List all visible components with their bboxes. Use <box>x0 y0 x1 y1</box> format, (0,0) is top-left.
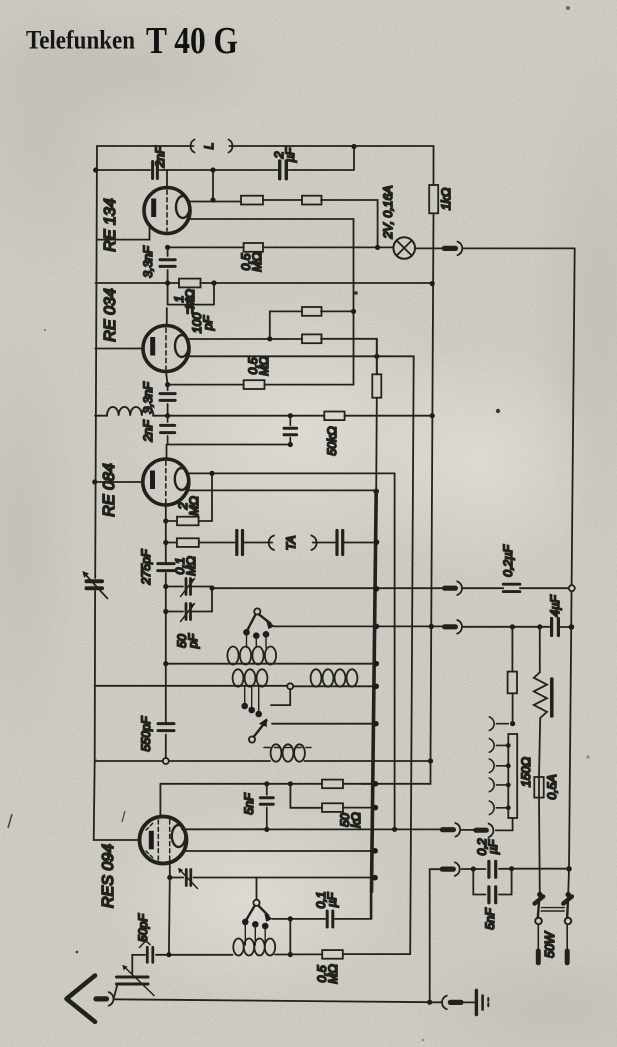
node bus y589 <box>374 586 380 592</box>
resistor vertical on bus <box>372 374 381 397</box>
node y586 <box>163 584 168 589</box>
node rail y170 <box>93 167 98 172</box>
wire riser x290 <box>289 919 291 955</box>
node y247 x377 <box>375 245 380 250</box>
grid leak chain RE134 <box>166 247 169 325</box>
capacitor 100pF <box>188 297 193 314</box>
resistor anode RE034 lower <box>302 334 322 343</box>
switch link <box>541 908 564 911</box>
tap 1 <box>489 739 508 753</box>
wire zigzag to fuse <box>539 718 540 777</box>
svg-text:pF: pF <box>186 632 200 649</box>
node bus y664 <box>374 661 380 667</box>
capacitor 3,3nF <box>160 260 175 267</box>
node y611 <box>163 609 168 614</box>
wire line y869 <box>430 868 569 871</box>
svg-text:RE 084: RE 084 <box>101 463 118 516</box>
svg-text:RES 094: RES 094 <box>100 844 117 908</box>
trim mark 50pF <box>140 938 151 948</box>
wire line y761 <box>95 760 430 762</box>
inductor coil 3 <box>311 669 322 686</box>
svg-text:50W: 50W <box>543 931 557 958</box>
tap 2 <box>489 759 508 773</box>
svg-text:µF: µF <box>486 838 500 854</box>
svg-text:RE 034: RE 034 <box>102 288 119 341</box>
antenna socket arc <box>109 992 114 1006</box>
node tap circle y686 <box>287 683 293 689</box>
band switch 3 <box>242 878 273 946</box>
capacitor 5nF mains <box>489 887 496 903</box>
node y869 x512 <box>509 866 514 871</box>
node y829 x393 <box>392 827 397 832</box>
wire switch arm line y627 <box>274 625 571 628</box>
connector arc TA right <box>311 536 316 551</box>
wire RES094 anode line y829 <box>182 828 443 830</box>
node y416 x432 <box>430 413 435 418</box>
trimmer capacitor upper <box>166 586 212 588</box>
resistor 0,1 MOhm <box>177 538 199 547</box>
lamp 2V 0,16A <box>393 237 415 259</box>
svg-text:Telefunken: Telefunken <box>26 26 135 55</box>
svg-text:MΩ: MΩ <box>250 252 264 272</box>
coupling capacitor x290 <box>284 416 297 445</box>
wire line y686 <box>95 685 377 688</box>
node bus y724 <box>373 721 379 727</box>
wire 0,1MOhm TA row <box>166 542 377 544</box>
wire RE084 grid riser <box>166 445 168 460</box>
svg-text:2nF: 2nF <box>153 145 167 169</box>
node rail circle y588 <box>569 585 575 591</box>
node bus y686 <box>373 684 379 690</box>
svg-text:275pF: 275pF <box>139 548 153 585</box>
capacitor 50pF antenna <box>147 947 153 962</box>
node rail y869 <box>566 866 572 872</box>
terminal plug y248 <box>444 246 455 251</box>
wire anode tap vertical <box>212 170 214 200</box>
capacitor TA right <box>337 531 343 555</box>
svg-text:1kΩ: 1kΩ <box>439 188 453 210</box>
resistor 0,5 MOhm (RE034 cathode) <box>244 380 265 389</box>
capacitor 2nF second (RE084 grid) <box>161 416 175 445</box>
svg-text:5nF: 5nF <box>242 792 256 815</box>
wire anode line y200 <box>190 200 378 247</box>
terminal plug y588 <box>445 586 456 591</box>
svg-text:T 40 G: T 40 G <box>146 20 238 62</box>
wire trimmer link vertical <box>211 587 213 612</box>
node y954 x290 <box>288 952 293 957</box>
plug speaker second <box>476 828 486 833</box>
wire 100pF branch <box>168 283 214 305</box>
mains switch pole B <box>563 892 572 963</box>
terminal socket arc y248 <box>458 242 463 256</box>
wire RE084 bottom lead <box>165 505 167 521</box>
resistor 2 MOhm <box>177 517 199 526</box>
node y473 x212 <box>209 471 214 476</box>
node bus y491 <box>373 489 379 495</box>
node y521 <box>163 518 168 523</box>
wire vertical 1k/lamp column <box>362 146 434 784</box>
trimmer capacitor lower 50pF <box>166 611 212 613</box>
earth socket arc <box>442 996 447 1010</box>
svg-text:50kΩ: 50kΩ <box>325 426 339 455</box>
capacitor 2uF (output coupling) <box>280 161 287 179</box>
antenna plug <box>96 996 107 1001</box>
node bus y627 <box>374 624 380 630</box>
svg-text:0,2µF: 0,2µF <box>501 544 515 577</box>
node y955 x169 <box>166 952 171 957</box>
resistor anode RE034 upper <box>302 307 322 316</box>
wire top line left <box>97 145 194 147</box>
wire vertical grid column RE084 <box>165 521 167 758</box>
ground rail left <box>94 146 140 840</box>
node bus TA <box>374 539 380 545</box>
node y664 <box>163 661 168 666</box>
node rail RE084 <box>92 479 97 484</box>
svg-text:L: L <box>202 143 216 150</box>
inductor RE084 grid coil <box>107 407 153 416</box>
wire RE034 electrode 2 line y356 <box>188 356 414 954</box>
zigzag ballast <box>534 672 547 718</box>
node y761 x430 <box>428 758 433 763</box>
wire line y283 <box>96 282 433 284</box>
capacitor 0,2uF series <box>503 584 520 591</box>
wire fuse to switch <box>538 798 541 895</box>
resistor dropper <box>508 672 517 694</box>
wire RE084 electrode2 to bus <box>188 489 377 491</box>
svg-text:5nF: 5nF <box>483 907 497 930</box>
resistor 50kOhm lower <box>290 784 375 808</box>
wire resistor1 to bus <box>362 783 376 785</box>
resistor 1 MOhm <box>179 279 201 288</box>
wire line y664 <box>166 663 377 665</box>
inductor antenna coil 2 <box>233 669 244 686</box>
node y627 x540 <box>537 624 542 629</box>
wire lamp to terminal <box>415 247 445 249</box>
svg-text:kΩ: kΩ <box>349 812 363 828</box>
wire cathode column to grid line <box>168 878 171 955</box>
wire line y416 mid <box>153 415 432 417</box>
tuning capacitor in rail <box>87 581 103 588</box>
capacitor 0,1uF <box>327 911 333 927</box>
wire 2MOhm row <box>166 473 212 521</box>
svg-text:MΩ: MΩ <box>187 496 201 516</box>
svg-text:3,3nF: 3,3nF <box>141 245 155 278</box>
node y283 x214 <box>211 280 216 285</box>
capacitor 550pF <box>158 724 174 731</box>
wire dropper column x512 <box>511 627 513 724</box>
svg-text:550pF: 550pF <box>139 715 153 751</box>
wire RE034 cathode to rail <box>95 348 143 350</box>
tube RE134 <box>144 188 190 234</box>
wire dot to earth socket <box>430 1001 442 1003</box>
wire RE084 anode line y473 <box>187 473 395 829</box>
node bus y787 <box>373 781 379 787</box>
coupling dashes above coil 4 <box>264 747 311 749</box>
svg-text:4µF: 4µF <box>548 594 562 617</box>
trimmer arrow lower <box>181 604 195 622</box>
wire RE034 anode line y339 <box>188 339 377 375</box>
node y877 <box>167 875 172 880</box>
node rail y627 <box>569 624 575 630</box>
tube RES094 <box>140 817 187 864</box>
node y311 x353 <box>351 309 356 314</box>
svg-text:RE 134: RE 134 <box>102 198 119 251</box>
wire earth line <box>114 999 430 1002</box>
tap 4 <box>489 801 508 815</box>
svg-text:µF: µF <box>283 146 297 162</box>
node y919 x290 <box>288 916 293 921</box>
variable capacitor cathode <box>170 877 375 879</box>
resistor (anode) R b <box>302 196 322 205</box>
terminal socket arc y869 <box>455 862 460 876</box>
capacitor 0,2uF mains <box>489 861 496 877</box>
inductor feedback coil 4 <box>271 744 282 761</box>
capacitor 4uF <box>552 619 559 636</box>
node y283 x432 <box>430 281 435 286</box>
connector arc TA left <box>269 536 274 551</box>
band switch 1 <box>243 608 275 647</box>
svg-text:150Ω: 150Ω <box>519 757 533 787</box>
resistor 150 Ohm tapped <box>508 734 517 818</box>
svg-text:MΩ: MΩ <box>326 964 340 984</box>
node y784 x290 <box>288 781 293 786</box>
wire switch2 to bus y724 <box>272 723 376 725</box>
heater resistor column <box>539 627 541 672</box>
node bus y807 <box>373 805 379 811</box>
capacitor 275pF <box>158 564 175 571</box>
wire RE034 cathode row <box>168 384 244 386</box>
terminal plug y627 <box>445 624 456 629</box>
wire RES094 electrode2 to bus <box>184 850 375 852</box>
wire RE084 cathode to rail <box>95 481 143 483</box>
resistor (anode) R a <box>241 196 263 205</box>
node y627 x431 <box>429 624 434 629</box>
wire RE134 grid riser <box>166 170 168 188</box>
resistor 0,5 MOhm (RE134) <box>244 243 263 252</box>
node y356 bus <box>374 354 379 359</box>
node y339 x270 <box>267 336 272 341</box>
wire grid line y955 <box>132 954 322 973</box>
node y416 x290 <box>288 413 293 418</box>
node y724 x512 <box>510 721 515 726</box>
stray pen mark left edge <box>8 814 12 828</box>
node y627 x512 <box>510 624 515 629</box>
svg-text:TA: TA <box>284 536 298 551</box>
wire to right rail top <box>464 247 575 249</box>
wire RE134 cathode to rail <box>97 228 150 240</box>
tube RE084 <box>143 459 189 505</box>
tube RE034 <box>143 326 189 372</box>
arrow cathode cap <box>180 870 198 889</box>
node tap circle y761 <box>163 758 169 764</box>
wire RES094 bottom lead <box>169 863 171 878</box>
capacitor 5nF grid <box>260 784 273 830</box>
wire line y444 <box>168 444 291 446</box>
wire RE034 bottom lead <box>166 372 168 416</box>
band switch 2 <box>241 686 290 742</box>
resistor 50kOhm upper <box>322 780 343 789</box>
resistor 1kOhm <box>429 185 438 213</box>
ground symbol <box>475 991 478 1015</box>
connector arc L left <box>191 140 195 153</box>
node y247 x167 <box>165 245 170 250</box>
svg-text:2V, 0,16A: 2V, 0,16A <box>381 185 395 239</box>
capacitor 2nF (grid RE134) <box>153 162 158 179</box>
capacitor TA left <box>237 531 243 555</box>
svg-text:MΩ: MΩ <box>257 356 271 376</box>
node y385 x167 <box>165 382 170 387</box>
wire RE134 electrode 2 line y219 <box>188 219 354 385</box>
antenna symbol <box>67 976 96 1022</box>
terminal socket arc y588 <box>457 581 462 595</box>
terminal plug y869 <box>442 866 453 871</box>
wire cathode line y247 <box>168 246 394 248</box>
wire plug to ground <box>460 1001 474 1003</box>
node y444 x290 <box>288 442 293 447</box>
connector arc L right <box>229 140 233 153</box>
node y283 x167 <box>165 280 170 285</box>
terminal plug y829 <box>442 827 453 832</box>
wire trimmer bottom to earth line <box>114 984 118 999</box>
terminal socket arc y627 <box>457 620 462 634</box>
inductor RES094 grid coil <box>233 939 243 956</box>
socket cup 150ohm bottom <box>489 824 494 838</box>
variable capacitor antenna trimmer <box>117 977 149 984</box>
node bus y878 <box>372 875 378 881</box>
fuse 0,5A <box>534 777 543 798</box>
capacitor 3,3nF second <box>160 394 175 401</box>
svg-text:0,5A: 0,5A <box>545 774 559 799</box>
wire riser 2uF <box>353 147 355 170</box>
wire cup to 150ohm <box>496 818 513 830</box>
node y784 x267 <box>264 781 269 786</box>
wire top line right <box>230 145 434 147</box>
wire line y588 to terminal <box>212 587 571 589</box>
svg-text:MΩ: MΩ <box>183 289 197 309</box>
node y829 x267 <box>264 827 269 832</box>
svg-text:pF: pF <box>201 314 215 331</box>
node y200 x213 <box>210 197 215 202</box>
wire riser y869 to earth node <box>429 869 431 1002</box>
socket cup tap 0 <box>489 717 508 731</box>
capacitor 5nF mains bracket <box>473 869 511 895</box>
inductor tuning coil 1 <box>227 647 238 665</box>
ballast bar <box>550 679 554 716</box>
resistor 50kOhm <box>324 412 344 421</box>
resistor 0,5 MOhm output <box>322 950 343 959</box>
mains switch pole A <box>535 892 544 963</box>
svg-text:µF: µF <box>325 891 339 907</box>
wire grid line y784 <box>160 784 362 818</box>
wire speaker link <box>462 829 477 831</box>
svg-text:50pF: 50pF <box>136 912 150 942</box>
node y170 x213 <box>210 167 215 172</box>
node 2uF riser <box>351 144 356 149</box>
node y416 x167 <box>165 413 170 418</box>
earth plug <box>450 1000 461 1005</box>
trimmer arrow upper <box>181 579 195 597</box>
wire resistor pair bracket <box>270 311 354 338</box>
node y869 x473 <box>471 866 476 871</box>
svg-text:MΩ: MΩ <box>184 556 198 576</box>
right rail <box>568 248 575 894</box>
wire line y416 left <box>95 415 107 417</box>
node y588 x212 <box>209 585 214 590</box>
terminal socket arc y829 <box>455 823 460 837</box>
bus HT vertical <box>375 339 378 492</box>
node bus y851 <box>372 848 378 854</box>
svg-text:2nF: 2nF <box>141 419 155 443</box>
node earth x430 <box>427 1000 432 1005</box>
paper shading blotches <box>0 0 130 280</box>
wire line y170 <box>96 169 354 171</box>
wire 0,1uF line y919 <box>273 892 371 919</box>
tap 3 <box>489 778 508 792</box>
node y542 <box>163 540 168 545</box>
